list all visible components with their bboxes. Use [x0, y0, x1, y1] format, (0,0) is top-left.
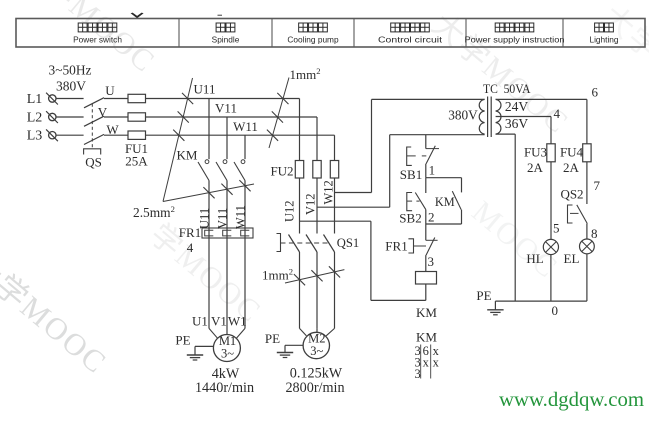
wire node4 down to FU3	[550, 117, 552, 144]
svg-text:www.dgdqw.com: www.dgdqw.com	[499, 389, 644, 411]
svg-text:4: 4	[187, 240, 194, 255]
svg-text:1mm2: 1mm2	[262, 267, 293, 283]
ground (TC PE)	[487, 309, 503, 311]
wire coil return rail	[371, 299, 426, 301]
svg-text:2A: 2A	[527, 160, 544, 175]
svg-text:V12: V12	[304, 193, 318, 215]
wire V12 riser	[389, 135, 391, 208]
transformer TC core	[487, 97, 489, 138]
wire FU4 to QS2	[586, 162, 588, 204]
wire node1 to SB2	[425, 178, 427, 193]
wire QS to FU1	[104, 116, 128, 118]
svg-text:2.5mm2: 2.5mm2	[133, 204, 175, 220]
wire QS1 lower	[316, 252, 318, 328]
svg-text:V1: V1	[211, 314, 227, 329]
wire drop to KM contact	[208, 99, 210, 160]
svg-text:QS: QS	[85, 155, 102, 170]
wire U12 tap to KM coil return	[300, 220, 371, 222]
header divider	[353, 19, 355, 48]
wire SB2 to node 2	[425, 210, 427, 224]
transformer TC secondary winding	[496, 99, 501, 134]
svg-text:3~: 3~	[310, 344, 323, 358]
wire drop to KM contact	[244, 135, 246, 159]
thermal contact FR1 (NC)	[426, 239, 438, 241]
wire marker slash	[272, 111, 283, 122]
wire to M2 mid	[316, 328, 318, 332]
switch QS blade	[84, 134, 104, 144]
wire-gauge leader 2.5mm2 (steep)	[163, 78, 193, 202]
fuse FU1 element	[128, 94, 146, 102]
svg-text:2A: 2A	[563, 160, 580, 175]
FR1 heater element	[223, 230, 232, 236]
svg-text:Spindle: Spindle	[212, 35, 240, 45]
header cell Control circuit	[391, 23, 400, 32]
wire U12 drop	[299, 99, 301, 161]
svg-text:PE: PE	[265, 331, 280, 346]
ground (M1 PE)	[187, 354, 203, 356]
wire QS1 lower	[334, 252, 336, 328]
svg-text:U1: U1	[192, 314, 208, 329]
wire U12 riser (return)	[370, 221, 372, 300]
svg-text:L3: L3	[27, 129, 43, 144]
header cell Spindle	[216, 23, 225, 32]
FR1 heater element	[205, 230, 214, 236]
svg-text:24V: 24V	[505, 99, 529, 114]
header divider	[178, 19, 180, 48]
header divider	[465, 19, 467, 48]
svg-text:Cooling pump: Cooling pump	[287, 35, 339, 45]
header cell Power switch	[78, 23, 87, 32]
motor M2	[303, 332, 329, 358]
svg-text:EL: EL	[564, 251, 580, 266]
fuse FU2 element	[295, 161, 303, 179]
fuse FU2 element	[330, 161, 338, 179]
wire node6 down to FU4	[586, 99, 588, 143]
wire marker slash	[294, 274, 305, 285]
svg-text:4: 4	[554, 106, 561, 121]
svg-text:SB1: SB1	[400, 167, 422, 182]
thermal relay FR1 heater box	[202, 228, 253, 238]
header divider	[271, 19, 273, 48]
header table frame	[16, 19, 645, 48]
wire PE to M1	[195, 345, 213, 347]
svg-text:L2: L2	[27, 111, 43, 126]
svg-text:U11: U11	[198, 208, 212, 229]
svg-text:1: 1	[429, 163, 436, 178]
wire W1 to motor	[244, 238, 246, 328]
wire QS to FU1	[104, 98, 128, 100]
svg-text:KM: KM	[416, 330, 437, 345]
wire-gauge leader 1mm2 (top)	[269, 78, 289, 149]
contactor KM main contact	[205, 160, 209, 164]
wire U bus	[146, 98, 300, 100]
svg-text:W: W	[106, 122, 119, 137]
svg-text:U: U	[105, 83, 115, 98]
FR1 heater element	[241, 230, 250, 236]
svg-text:380V: 380V	[56, 79, 86, 94]
svg-text:PE: PE	[476, 288, 491, 303]
wire ladder from rail	[425, 135, 427, 149]
wire secondary top to node 6	[496, 98, 587, 100]
wire-gauge leader 2.5mm2 (shallow)	[163, 184, 254, 202]
wire V12 tap to control rail	[317, 206, 390, 208]
terminal L2	[49, 113, 56, 120]
wire V1 to motor	[226, 238, 228, 335]
wire drop to KM contact	[226, 117, 228, 159]
button SB1 (NC stop)	[426, 148, 439, 150]
switch QS blade	[84, 98, 104, 108]
switch QS1 blade	[289, 235, 300, 253]
ground (M2 PE)	[277, 352, 293, 354]
svg-text:1440r/min: 1440r/min	[195, 380, 254, 396]
wire 36V down to 0 bus	[514, 134, 516, 301]
svg-text:380V: 380V	[448, 108, 478, 123]
coil KM	[416, 272, 437, 285]
wire marker slash	[311, 270, 322, 281]
wire QS to FU1	[104, 134, 128, 136]
svg-text:2800r/min: 2800r/min	[285, 380, 344, 396]
fuse FU4 element	[583, 144, 591, 162]
wire node2 to FR1 contact	[425, 224, 427, 240]
wire KM aux to node 2 rail	[426, 223, 462, 225]
wire to M2 right	[326, 328, 334, 335]
svg-text:FR1: FR1	[385, 238, 407, 253]
fuse FU3 element	[547, 144, 555, 162]
svg-text:QS2: QS2	[560, 187, 583, 202]
svg-text:QS1: QS1	[337, 236, 359, 250]
wire to M2 left	[300, 328, 307, 335]
wire W12 riser to top lead	[371, 99, 373, 192]
header cell Cooling pump	[299, 23, 308, 32]
motor M1	[213, 335, 240, 362]
svg-text:0: 0	[552, 303, 559, 318]
svg-text:V11: V11	[216, 208, 230, 229]
wire W12 tap to TC primary	[335, 192, 372, 194]
svg-text:3: 3	[414, 367, 420, 381]
wire V12 drop	[316, 117, 318, 161]
wire KM contact to FR1	[244, 181, 246, 239]
svg-text:Control circuit: Control circuit	[378, 35, 443, 45]
wire marker slash W11	[239, 180, 250, 191]
wire QS2 to EL lamp	[586, 224, 588, 239]
wire coil to return rail	[425, 284, 427, 300]
wire FU3 to HL lamp	[550, 162, 552, 240]
wire marker slash	[267, 130, 278, 141]
terminal L1	[49, 95, 56, 102]
wire-gauge leader 1mm2 (lower)	[285, 270, 344, 283]
switch QS1 linkage (dashed)	[281, 242, 329, 244]
fuse FU1 element	[128, 113, 146, 121]
switch QS linkage (dashed)	[91, 104, 93, 149]
fuse FU1 element	[128, 131, 146, 139]
svg-text:Power switch: Power switch	[73, 35, 122, 45]
svg-text:KM: KM	[177, 148, 198, 163]
switch QS blade	[84, 116, 104, 126]
svg-text:TC 50VA: TC 50VA	[483, 81, 531, 96]
wire W12 below fuse	[334, 178, 336, 234]
svg-text:8: 8	[591, 226, 598, 241]
svg-text:3: 3	[428, 254, 435, 269]
wire marker slash	[329, 266, 340, 277]
svg-text:U11: U11	[194, 82, 216, 97]
wire V bus	[146, 116, 318, 118]
wire node1 branch rail	[426, 177, 462, 179]
wire U1 to motor	[208, 238, 210, 328]
fuse FU2 element	[313, 161, 321, 179]
svg-text:HL: HL	[526, 251, 543, 266]
header cell Power supply instruction	[495, 23, 504, 32]
wire marker slash V	[178, 111, 189, 122]
svg-text:KM: KM	[435, 195, 455, 209]
svg-text:FU4: FU4	[560, 145, 584, 160]
terminal L3	[49, 132, 56, 139]
contactor KM main contact	[223, 160, 227, 164]
wire KM contact to FR1	[226, 181, 228, 239]
switch QS1 handle bracket	[277, 234, 281, 252]
wire W12 drop	[334, 135, 336, 160]
wire marker slash V11	[221, 184, 232, 195]
svg-text:PE: PE	[175, 333, 190, 348]
svg-text:W12: W12	[322, 180, 336, 204]
svg-text:W11: W11	[233, 119, 258, 134]
wire QS1 lower	[299, 252, 301, 328]
svg-text:x: x	[433, 356, 440, 370]
svg-text:1mm2: 1mm2	[290, 66, 321, 82]
wire KM contact to FR1	[208, 181, 210, 239]
wire HL to 0 bus	[550, 255, 552, 302]
svg-text:FU2: FU2	[270, 164, 293, 179]
wire U12 below fuse	[299, 178, 301, 234]
wire TC primary bottom lead / control rail	[390, 134, 485, 136]
wire L2 to QS	[56, 116, 83, 118]
transformer TC primary winding	[479, 99, 484, 134]
switch QS2 (lighting)	[577, 205, 588, 224]
svg-text:36V: 36V	[505, 116, 529, 131]
lamp HL	[543, 239, 558, 254]
wire marker slash U	[182, 93, 193, 104]
svg-text:FU3: FU3	[524, 145, 547, 160]
wire V12 below fuse	[316, 178, 318, 234]
wire EL to 0 bus	[586, 254, 588, 301]
svg-text:Lighting: Lighting	[589, 35, 618, 45]
switch QS handle	[84, 149, 101, 155]
svg-text:2: 2	[428, 210, 435, 225]
wire marker slash W	[173, 130, 184, 141]
svg-text:L1: L1	[27, 92, 43, 107]
svg-text:3~: 3~	[221, 347, 234, 361]
svg-text:3~50Hz: 3~50Hz	[49, 63, 92, 78]
wire FR1 to coil	[425, 255, 427, 271]
wire 0 bus	[495, 300, 587, 302]
svg-text:V11: V11	[215, 101, 237, 116]
svg-text:6: 6	[592, 85, 599, 100]
svg-text:W1: W1	[228, 314, 247, 329]
wire secondary mid tap to node 4	[496, 116, 551, 118]
svg-text:KM: KM	[416, 305, 437, 320]
svg-text:SB2: SB2	[399, 211, 421, 226]
wire PE stem	[494, 301, 496, 310]
svg-text:W11: W11	[234, 205, 248, 229]
wire L1 to QS	[56, 98, 83, 100]
header cell Lighting	[595, 23, 604, 32]
contactor KM main contact	[241, 160, 245, 164]
wire marker slash U11	[203, 187, 214, 198]
wire SB1 to node 1	[425, 164, 427, 178]
svg-text:Power supply instruction: Power supply instruction	[465, 35, 565, 45]
svg-text:25A: 25A	[125, 154, 148, 169]
svg-text:V: V	[98, 104, 108, 119]
switch QS1 blade	[306, 235, 317, 253]
wire TC primary top lead	[372, 98, 485, 100]
svg-text:x: x	[423, 356, 430, 370]
switch QS1 blade	[324, 235, 335, 253]
wire L3 to QS	[56, 134, 83, 136]
cropped title glyph remnant	[131, 13, 144, 19]
wire marker slash	[277, 93, 288, 104]
svg-text:U12: U12	[283, 200, 297, 222]
wire secondary bottom tap (36V)	[496, 133, 516, 135]
wire W bus	[146, 134, 335, 136]
wire PE to M2	[285, 344, 303, 346]
svg-text:5: 5	[553, 221, 560, 236]
svg-text:7: 7	[594, 178, 601, 193]
lamp EL	[580, 239, 595, 254]
button SB2 (NO start)	[415, 193, 426, 210]
header divider	[562, 19, 564, 48]
contactor KM aux contact (self-hold)	[461, 178, 463, 193]
